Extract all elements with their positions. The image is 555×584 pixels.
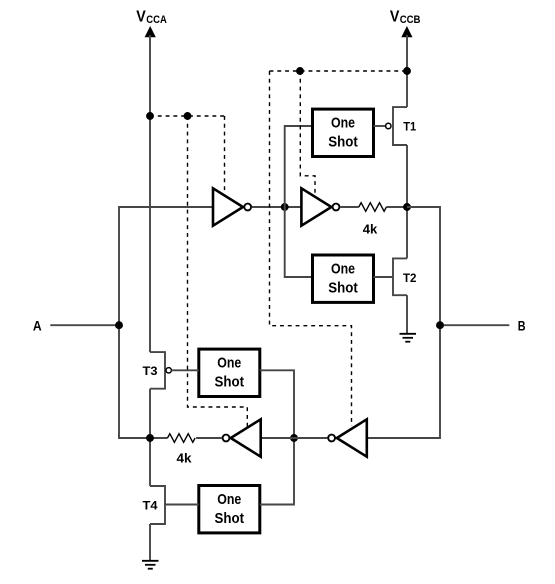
node on top line (to one-shots) <box>281 203 289 211</box>
wire U1 output to U2 input <box>252 206 302 208</box>
svg-text:CCA: CCA <box>146 14 167 26</box>
svg-text:V: V <box>136 9 146 26</box>
node junction at VCCB rail / 4k <box>403 203 411 211</box>
wire VCCA rail mid segment <box>149 389 151 486</box>
node on dashed net 2 <box>296 67 304 75</box>
svg-text:One: One <box>217 355 241 372</box>
dashed net 2 drop to inverter U2 <box>300 71 315 196</box>
wire U4 output to U3 input <box>261 437 328 439</box>
svg-text:V: V <box>390 9 400 26</box>
svg-text:Shot: Shot <box>328 279 358 296</box>
wire U3 output to resistor R2 <box>196 437 222 439</box>
wire OS3 output to T3 gate <box>171 369 198 371</box>
node junction on B line <box>436 321 444 329</box>
transistor T1 <box>393 107 407 145</box>
svg-text:4k: 4k <box>177 450 193 465</box>
ground B-side <box>400 334 417 342</box>
VCCA supply arrow <box>145 26 156 37</box>
ground A-side <box>142 561 159 569</box>
dashed net 2 drop to inverter U4 <box>270 71 352 426</box>
wire T2 to ground <box>406 295 408 334</box>
svg-text:A: A <box>33 318 42 334</box>
one-shot OS1 <box>313 109 374 156</box>
svg-text:T4: T4 <box>143 499 158 513</box>
resistor R2 <box>168 434 196 443</box>
power label VCCB <box>390 9 421 26</box>
wire VCCA rail upper segment <box>149 35 151 352</box>
node junction on A line <box>115 321 123 329</box>
wire U2 output to resistor R1 <box>340 206 359 208</box>
dashed net 1 drop to inverter U3 <box>188 116 248 428</box>
T1 gate bubble <box>386 123 391 128</box>
svg-text:One: One <box>331 115 355 132</box>
svg-text:T2: T2 <box>403 271 417 285</box>
transistor T2 <box>393 258 407 295</box>
node junction on lower line (one-shot column) <box>290 434 298 442</box>
wire OS1 output to T1 gate <box>374 125 386 127</box>
wire B lead <box>440 324 509 326</box>
svg-text:One: One <box>331 260 355 277</box>
VCCB supply arrow <box>401 26 412 37</box>
inverter U2 (B-side output buffer) <box>301 188 339 225</box>
svg-text:One: One <box>217 491 241 508</box>
svg-text:Shot: Shot <box>215 374 245 391</box>
one-shot OS2 <box>313 255 374 302</box>
node on dashed net 1 <box>184 112 192 120</box>
wire A down to lower line <box>119 325 168 438</box>
svg-text:Shot: Shot <box>215 510 245 527</box>
svg-text:CCB: CCB <box>400 14 421 26</box>
svg-text:T3: T3 <box>143 364 158 378</box>
transistor T4 <box>150 486 165 524</box>
transistor T3 <box>150 352 165 389</box>
dashed net 1 horizontal from VCCA rail <box>150 115 225 117</box>
wire node to B vertical <box>367 207 440 438</box>
node on dashed net 2 at VCCB rail <box>403 67 411 75</box>
inverter U3 (A-side output buffer) <box>223 419 261 456</box>
wire OS2 output to T2 gate <box>374 276 394 278</box>
wire A lead <box>50 324 119 326</box>
T3 gate bubble <box>166 368 171 373</box>
svg-text:T1: T1 <box>403 119 416 133</box>
wire node to one-shot OS2 input <box>285 207 313 277</box>
dashed net 2 horizontal from VCCB rail <box>270 70 407 72</box>
one-shot OS4 <box>199 486 260 533</box>
resistor R1 <box>359 203 387 212</box>
wire VCCB rail mid segment <box>406 145 408 258</box>
svg-text:Shot: Shot <box>328 134 358 151</box>
wire R1 to node <box>386 206 407 208</box>
wire VCCB rail upper segment <box>406 35 408 107</box>
wire OS3 input from lower node <box>260 370 294 438</box>
wire T4 to ground <box>149 524 151 561</box>
one-shot OS3 <box>199 349 260 396</box>
svg-text:4k: 4k <box>363 221 378 236</box>
wire A to inverter U1 input <box>119 207 213 325</box>
inverter U1 (A-side driver) <box>213 188 251 225</box>
svg-text:B: B <box>518 318 526 334</box>
dashed net 1 drop to inverter U1 <box>224 116 226 194</box>
wire OS4 output to T4 gate <box>165 504 199 506</box>
wire node to one-shot OS1 input <box>285 126 313 207</box>
node junction on lower line at VCCA rail <box>146 434 154 442</box>
wire OS4 input from lower node <box>260 438 294 505</box>
inverter U4 (B receive) <box>328 419 367 456</box>
node on dashed net 1 at VCCA rail <box>146 112 154 120</box>
power label VCCA <box>136 9 167 26</box>
